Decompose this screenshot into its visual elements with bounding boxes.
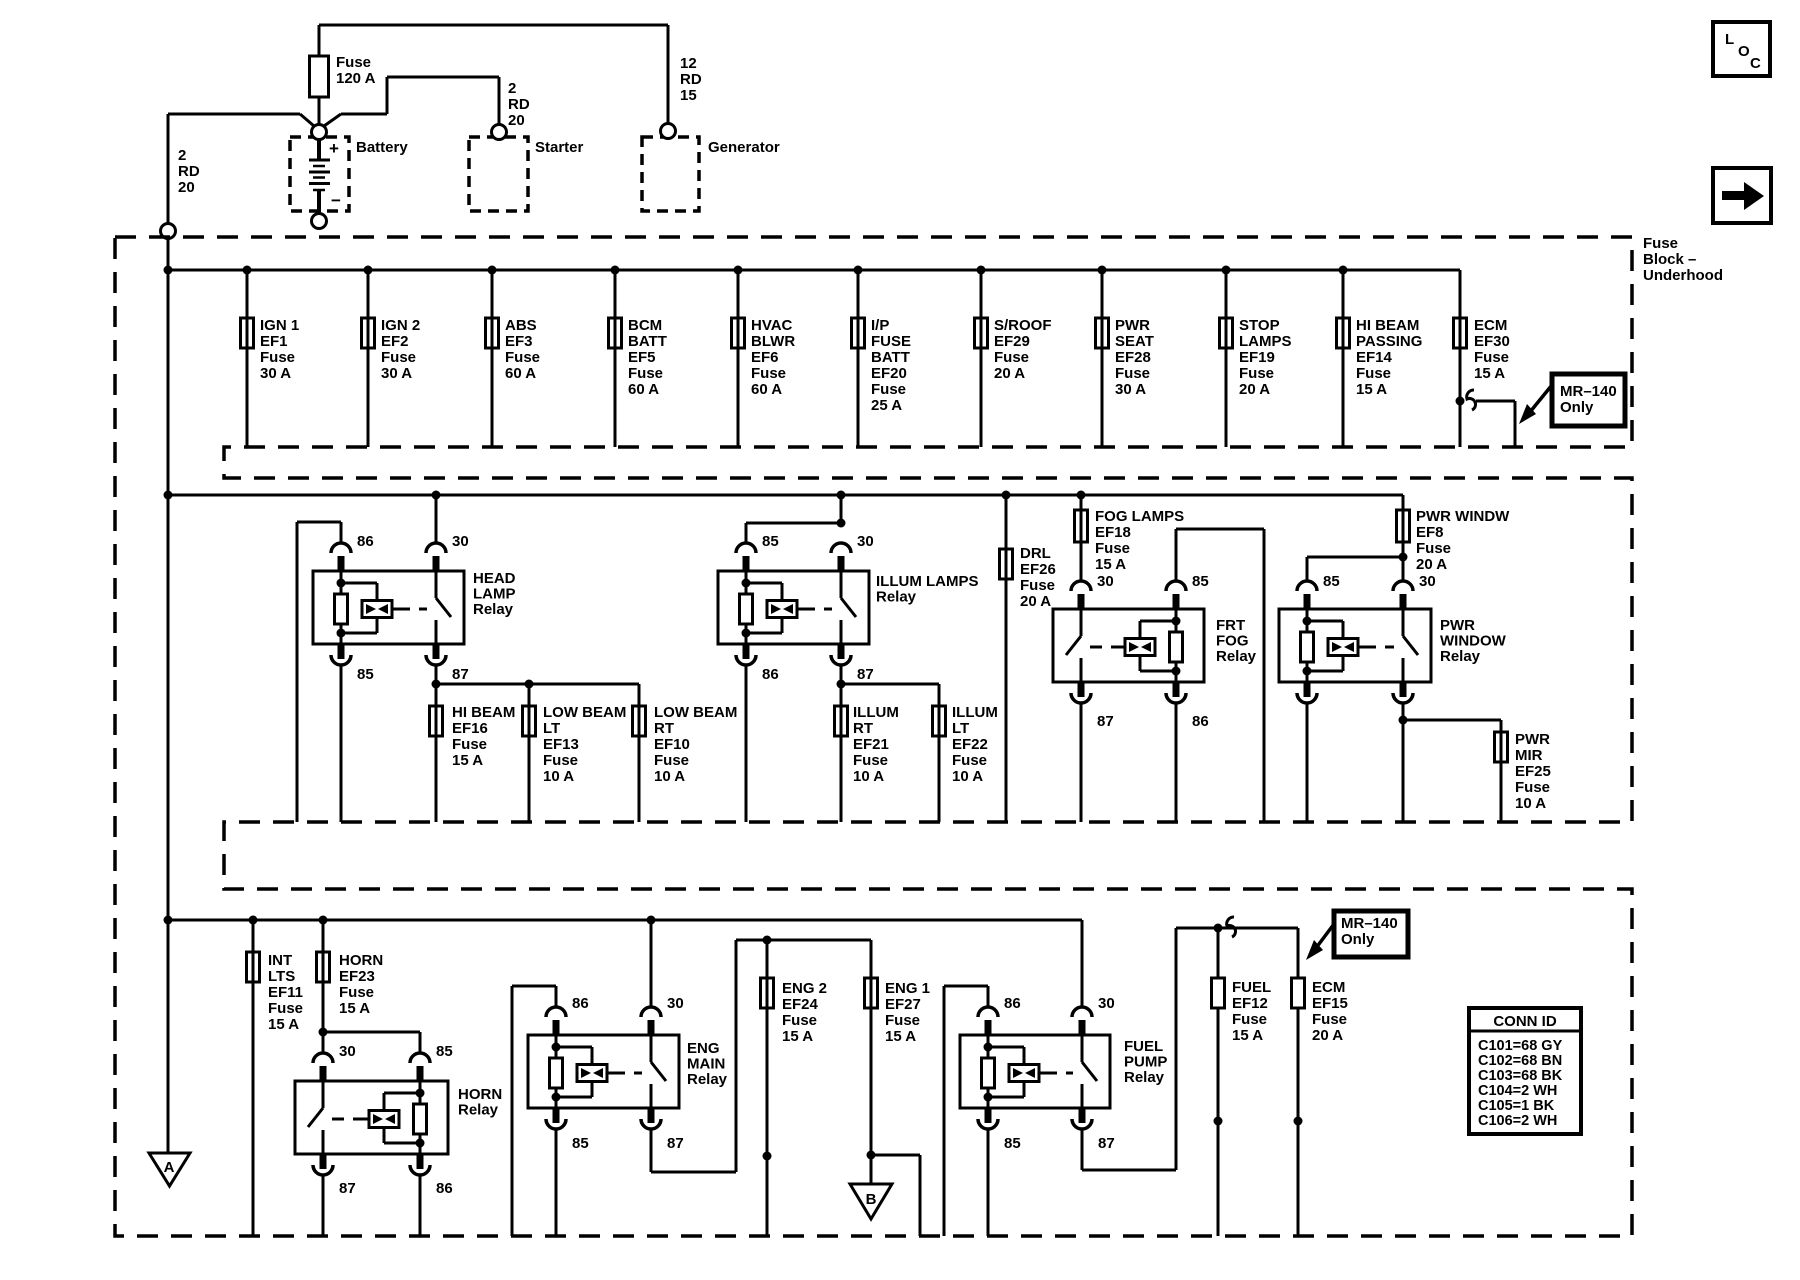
svg-text:LAMPS: LAMPS <box>1239 333 1292 350</box>
svg-text:10 A: 10 A <box>1515 795 1546 812</box>
svg-text:SEAT: SEAT <box>1115 333 1154 350</box>
svg-text:LOW BEAM: LOW BEAM <box>543 704 626 721</box>
svg-text:Fuse: Fuse <box>994 349 1029 366</box>
svg-text:ENG 2: ENG 2 <box>782 980 827 997</box>
svg-text:15 A: 15 A <box>339 1000 370 1017</box>
svg-text:EF27: EF27 <box>885 996 921 1013</box>
svg-text:LAMP: LAMP <box>473 586 516 603</box>
svg-text:15 A: 15 A <box>1356 381 1387 398</box>
svg-text:15 A: 15 A <box>268 1016 299 1033</box>
svg-text:FUSE: FUSE <box>871 333 911 350</box>
svg-text:86: 86 <box>572 995 589 1012</box>
svg-text:FOG: FOG <box>1216 633 1249 650</box>
svg-text:2: 2 <box>178 147 186 164</box>
svg-text:12: 12 <box>680 55 697 72</box>
svg-text:Relay: Relay <box>1440 648 1481 665</box>
svg-text:FUEL: FUEL <box>1124 1038 1163 1055</box>
svg-text:30: 30 <box>1419 573 1436 590</box>
svg-text:Fuse: Fuse <box>1356 365 1391 382</box>
svg-text:20: 20 <box>508 112 525 129</box>
svg-text:EF24: EF24 <box>782 996 819 1013</box>
svg-text:EF23: EF23 <box>339 968 375 985</box>
svg-text:MAIN: MAIN <box>687 1056 725 1073</box>
svg-text:FOG LAMPS: FOG LAMPS <box>1095 508 1184 525</box>
svg-text:EF21: EF21 <box>853 736 889 753</box>
svg-text:WINDOW: WINDOW <box>1440 633 1507 650</box>
svg-text:85: 85 <box>762 533 779 550</box>
svg-text:Fuse: Fuse <box>1239 365 1274 382</box>
svg-text:LT: LT <box>952 720 969 737</box>
svg-text:Fuse: Fuse <box>1312 1011 1347 1028</box>
svg-text:PASSING: PASSING <box>1356 333 1422 350</box>
svg-text:20 A: 20 A <box>1239 381 1270 398</box>
svg-text:PUMP: PUMP <box>1124 1054 1167 1071</box>
svg-text:85: 85 <box>1323 573 1340 590</box>
svg-text:BATT: BATT <box>628 333 667 350</box>
svg-text:RT: RT <box>654 720 674 737</box>
svg-text:87: 87 <box>452 666 469 683</box>
svg-text:15 A: 15 A <box>782 1028 813 1045</box>
svg-text:20: 20 <box>178 179 195 196</box>
svg-text:ILLUM: ILLUM <box>952 704 998 721</box>
svg-text:EF18: EF18 <box>1095 524 1131 541</box>
svg-text:C106=2 WH: C106=2 WH <box>1478 1113 1557 1129</box>
svg-text:HVAC: HVAC <box>751 317 793 334</box>
svg-text:Fuse: Fuse <box>628 365 663 382</box>
svg-text:Fuse: Fuse <box>885 1012 920 1029</box>
svg-text:EF25: EF25 <box>1515 763 1551 780</box>
svg-text:Fuse: Fuse <box>751 365 786 382</box>
svg-text:EF8: EF8 <box>1416 524 1444 541</box>
svg-text:BCM: BCM <box>628 317 662 334</box>
svg-text:C104=2 WH: C104=2 WH <box>1478 1083 1557 1099</box>
svg-text:86: 86 <box>762 666 779 683</box>
svg-text:CONN ID: CONN ID <box>1493 1013 1557 1030</box>
svg-text:60 A: 60 A <box>751 381 782 398</box>
svg-text:20 A: 20 A <box>1020 593 1051 610</box>
svg-text:+: + <box>329 139 339 158</box>
svg-text:HORN: HORN <box>339 952 383 969</box>
svg-text:C: C <box>1750 55 1761 72</box>
svg-text:EF12: EF12 <box>1232 995 1268 1012</box>
svg-text:Fuse: Fuse <box>1515 779 1550 796</box>
svg-text:10 A: 10 A <box>543 768 574 785</box>
svg-text:Fuse: Fuse <box>654 752 689 769</box>
svg-text:EF13: EF13 <box>543 736 579 753</box>
svg-text:ENG: ENG <box>687 1040 720 1057</box>
svg-text:Fuse: Fuse <box>1115 365 1150 382</box>
svg-text:Relay: Relay <box>473 601 514 618</box>
svg-text:L: L <box>1725 31 1734 48</box>
svg-text:EF11: EF11 <box>268 984 303 1001</box>
svg-text:60 A: 60 A <box>628 381 659 398</box>
svg-text:Relay: Relay <box>687 1071 728 1088</box>
svg-text:O: O <box>1738 43 1750 60</box>
svg-text:RT: RT <box>853 720 873 737</box>
svg-text:87: 87 <box>667 1135 684 1152</box>
svg-text:EF6: EF6 <box>751 349 779 366</box>
svg-text:30: 30 <box>857 533 874 550</box>
svg-text:ABS: ABS <box>505 317 537 334</box>
svg-text:EF29: EF29 <box>994 333 1030 350</box>
svg-text:Starter: Starter <box>535 139 584 156</box>
svg-text:HORN: HORN <box>458 1086 502 1103</box>
svg-text:20 A: 20 A <box>1312 1027 1343 1044</box>
svg-text:RD: RD <box>508 96 530 113</box>
svg-text:HI BEAM: HI BEAM <box>452 704 515 721</box>
svg-text:Only: Only <box>1341 931 1375 948</box>
svg-text:Relay: Relay <box>1216 648 1257 665</box>
svg-text:A: A <box>164 1159 175 1176</box>
svg-text:85: 85 <box>1004 1135 1021 1152</box>
svg-text:Fuse: Fuse <box>1232 1011 1267 1028</box>
svg-text:C103=68 BK: C103=68 BK <box>1478 1068 1563 1084</box>
svg-text:15 A: 15 A <box>885 1028 916 1045</box>
svg-text:30 A: 30 A <box>381 365 412 382</box>
svg-text:Generator: Generator <box>708 139 780 156</box>
svg-text:30: 30 <box>1098 995 1115 1012</box>
svg-text:S/ROOF: S/ROOF <box>994 317 1052 334</box>
svg-text:MIR: MIR <box>1515 747 1543 764</box>
svg-text:Fuse: Fuse <box>1474 349 1509 366</box>
svg-text:30: 30 <box>667 995 684 1012</box>
svg-text:Fuse: Fuse <box>339 984 374 1001</box>
svg-text:20 A: 20 A <box>994 365 1025 382</box>
svg-text:Fuse: Fuse <box>381 349 416 366</box>
svg-text:BATT: BATT <box>871 349 910 366</box>
svg-text:30 A: 30 A <box>260 365 291 382</box>
svg-text:60 A: 60 A <box>505 365 536 382</box>
svg-text:15 A: 15 A <box>1232 1027 1263 1044</box>
svg-text:15 A: 15 A <box>1095 556 1126 573</box>
svg-text:Block –: Block – <box>1643 251 1696 268</box>
svg-text:Underhood: Underhood <box>1643 267 1723 284</box>
svg-text:EF2: EF2 <box>381 333 409 350</box>
svg-text:30 A: 30 A <box>1115 381 1146 398</box>
svg-text:2: 2 <box>508 80 516 97</box>
svg-text:DRL: DRL <box>1020 545 1051 562</box>
svg-text:Fuse: Fuse <box>1416 540 1451 557</box>
svg-text:IGN 1: IGN 1 <box>260 317 299 334</box>
svg-text:RD: RD <box>680 71 702 88</box>
svg-text:EF16: EF16 <box>452 720 488 737</box>
svg-text:Fuse: Fuse <box>268 1000 303 1017</box>
svg-text:Fuse: Fuse <box>260 349 295 366</box>
svg-text:−: − <box>331 191 341 210</box>
svg-text:RD: RD <box>178 163 200 180</box>
svg-text:FRT: FRT <box>1216 617 1245 634</box>
svg-text:ECM: ECM <box>1474 317 1507 334</box>
svg-text:Battery: Battery <box>356 139 408 156</box>
svg-text:BLWR: BLWR <box>751 333 795 350</box>
svg-text:85: 85 <box>436 1043 453 1060</box>
svg-text:Fuse: Fuse <box>452 736 487 753</box>
svg-text:MR–140: MR–140 <box>1560 383 1617 400</box>
svg-text:85: 85 <box>357 666 374 683</box>
svg-text:15 A: 15 A <box>1474 365 1505 382</box>
svg-text:ILLUM LAMPS: ILLUM LAMPS <box>876 573 979 590</box>
svg-text:C105=1 BK: C105=1 BK <box>1478 1098 1555 1114</box>
svg-text:Fuse: Fuse <box>1095 540 1130 557</box>
svg-text:20 A: 20 A <box>1416 556 1447 573</box>
svg-text:EF19: EF19 <box>1239 349 1275 366</box>
svg-text:EF30: EF30 <box>1474 333 1510 350</box>
svg-text:Fuse: Fuse <box>871 381 906 398</box>
svg-text:Fuse: Fuse <box>853 752 888 769</box>
svg-text:EF3: EF3 <box>505 333 533 350</box>
svg-text:87: 87 <box>1097 713 1114 730</box>
svg-text:86: 86 <box>357 533 374 550</box>
svg-text:10 A: 10 A <box>654 768 685 785</box>
svg-text:HI BEAM: HI BEAM <box>1356 317 1419 334</box>
svg-text:PWR: PWR <box>1440 617 1475 634</box>
svg-text:LOW BEAM: LOW BEAM <box>654 704 737 721</box>
svg-text:87: 87 <box>1098 1135 1115 1152</box>
svg-text:LTS: LTS <box>268 968 295 985</box>
svg-text:I/P: I/P <box>871 317 889 334</box>
svg-text:30: 30 <box>1097 573 1114 590</box>
svg-text:Fuse: Fuse <box>782 1012 817 1029</box>
svg-text:Fuse: Fuse <box>1643 235 1678 252</box>
svg-text:Relay: Relay <box>876 589 917 606</box>
svg-text:Fuse: Fuse <box>336 54 371 71</box>
svg-text:EF28: EF28 <box>1115 349 1151 366</box>
svg-text:FUEL: FUEL <box>1232 979 1271 996</box>
svg-text:87: 87 <box>857 666 874 683</box>
svg-text:10 A: 10 A <box>853 768 884 785</box>
svg-text:EF10: EF10 <box>654 736 690 753</box>
svg-text:ILLUM: ILLUM <box>853 704 899 721</box>
svg-text:EF15: EF15 <box>1312 995 1348 1012</box>
svg-text:STOP: STOP <box>1239 317 1280 334</box>
svg-text:MR–140: MR–140 <box>1341 915 1398 932</box>
svg-text:25 A: 25 A <box>871 397 902 414</box>
svg-text:Fuse: Fuse <box>1020 577 1055 594</box>
svg-text:INT: INT <box>268 952 292 969</box>
svg-text:HEAD: HEAD <box>473 570 516 587</box>
svg-text:LT: LT <box>543 720 560 737</box>
svg-text:C101=68 GY: C101=68 GY <box>1478 1038 1563 1054</box>
svg-text:EF22: EF22 <box>952 736 988 753</box>
svg-text:ECM: ECM <box>1312 979 1345 996</box>
svg-text:EF1: EF1 <box>260 333 288 350</box>
svg-text:10 A: 10 A <box>952 768 983 785</box>
svg-text:PWR: PWR <box>1115 317 1150 334</box>
svg-text:87: 87 <box>339 1180 356 1197</box>
svg-text:EF26: EF26 <box>1020 561 1056 578</box>
svg-text:IGN 2: IGN 2 <box>381 317 420 334</box>
svg-text:PWR: PWR <box>1515 731 1550 748</box>
svg-text:EF5: EF5 <box>628 349 656 366</box>
svg-text:15 A: 15 A <box>452 752 483 769</box>
svg-text:15: 15 <box>680 87 697 104</box>
svg-text:Only: Only <box>1560 399 1594 416</box>
svg-text:86: 86 <box>1004 995 1021 1012</box>
svg-text:86: 86 <box>1192 713 1209 730</box>
svg-text:Relay: Relay <box>1124 1069 1165 1086</box>
svg-text:120 A: 120 A <box>336 70 376 87</box>
svg-text:C102=68 BN: C102=68 BN <box>1478 1053 1562 1069</box>
svg-text:B: B <box>866 1191 877 1208</box>
svg-text:ENG 1: ENG 1 <box>885 980 930 997</box>
svg-text:86: 86 <box>436 1180 453 1197</box>
svg-text:PWR WINDW: PWR WINDW <box>1416 508 1510 525</box>
svg-text:Fuse: Fuse <box>952 752 987 769</box>
svg-text:Relay: Relay <box>458 1102 499 1119</box>
svg-text:EF20: EF20 <box>871 365 907 382</box>
svg-text:85: 85 <box>1192 573 1209 590</box>
svg-text:30: 30 <box>452 533 469 550</box>
svg-text:30: 30 <box>339 1043 356 1060</box>
svg-text:Fuse: Fuse <box>505 349 540 366</box>
svg-text:Fuse: Fuse <box>543 752 578 769</box>
svg-text:EF14: EF14 <box>1356 349 1393 366</box>
svg-text:85: 85 <box>572 1135 589 1152</box>
